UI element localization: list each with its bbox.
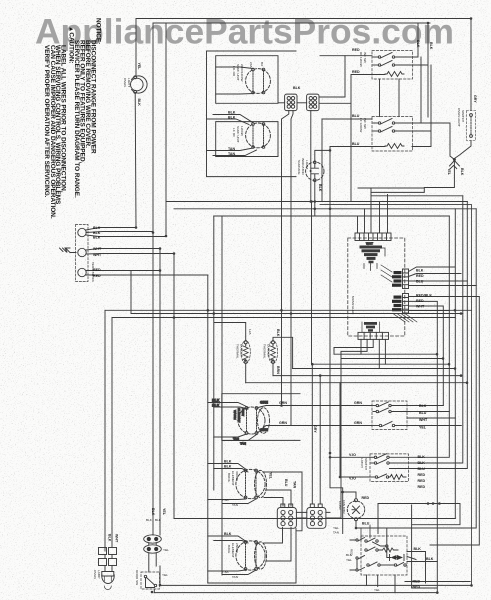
switch S5 oven light switch (467, 111, 476, 141)
svg-text:LATCH: LATCH (360, 458, 364, 468)
wire SW3 left leads GRN (266, 406, 372, 426)
svg-text:RED: RED (416, 274, 424, 278)
connector CN1 (285, 94, 297, 111)
svg-text:BLK: BLK (346, 553, 353, 557)
middle buses and thermal cutouts (105, 147, 472, 584)
svg-text:BLK: BLK (418, 461, 426, 465)
svg-text:RED: RED (352, 48, 360, 52)
svg-text:BLK: BLK (318, 184, 322, 192)
svg-text:12A: 12A (248, 329, 252, 335)
node j23 (470, 17, 473, 20)
svg-text:BLK: BLK (137, 99, 141, 107)
svg-text:TAN: TAN (293, 481, 297, 489)
svg-text:BLU: BLU (352, 114, 360, 118)
svg-text:BLK: BLK (224, 460, 232, 464)
wire SW2 left leads (322, 119, 454, 202)
node j33 (311, 363, 314, 366)
svg-text:BLK: BLK (228, 116, 236, 120)
wire right vertical x418 (412, 23, 418, 57)
connector P2 strip (381, 265, 409, 289)
svg-text:RED: RED (362, 496, 370, 500)
wire oven light feed (134, 19, 137, 229)
wire vertical bus x174 (173, 254, 175, 519)
wire CN drop x293 (291, 111, 293, 426)
svg-text:SERVICER PLEASE RETURN DIAGRAM: SERVICER PLEASE RETURN DIAGRAM TO RANGE. (73, 40, 80, 198)
node j20 (329, 452, 332, 455)
terminal block TB1 (76, 225, 89, 282)
svg-text:TERM BLOCK: TERM BLOCK (91, 262, 95, 283)
wire motor top lead RED (343, 492, 356, 499)
node j15 (460, 374, 463, 377)
node j8 (207, 309, 210, 312)
svg-text:SURFACE: SURFACE (297, 160, 301, 175)
box cooktop outer (207, 51, 297, 177)
svg-text:V.IO: V.IO (349, 477, 356, 481)
connector P4 strip bottom (358, 332, 389, 339)
wire horizontal bus y188 (358, 159, 454, 193)
wire top bus L1 (136, 18, 471, 20)
wire right vertical x431 (412, 65, 431, 147)
svg-text:GRY: GRY (473, 95, 477, 103)
svg-text:BLU: BLU (418, 467, 426, 471)
node j18 (436, 353, 439, 356)
svg-text:1200W: 1200W (240, 126, 244, 136)
svg-text:SWITCH: SWITCH (461, 110, 465, 122)
wire latch links (149, 543, 156, 572)
wire SW1-SW2 link B (398, 79, 400, 117)
svg-text:TAN: TAN (333, 531, 339, 535)
svg-text:BAKE: BAKE (227, 545, 231, 553)
svg-text:BLK: BLK (416, 40, 420, 48)
wire SW5 top feeds (386, 528, 388, 545)
wire vertical x210 (207, 275, 209, 583)
svg-text:BLK: BLK (93, 231, 101, 235)
element E2 bake (236, 541, 265, 571)
wire Vx443 (442, 307, 444, 406)
svg-text:OVEN: OVEN (93, 570, 97, 579)
wire TCO1 top lead (214, 216, 246, 490)
svg-text:WHT: WHT (93, 253, 102, 257)
svg-text:YEL: YEL (162, 508, 166, 516)
svg-text:▲CAUTION:: ▲CAUTION: (67, 26, 74, 64)
wire bus y382 (246, 382, 468, 384)
surface unit section top-center (207, 51, 352, 426)
svg-text:TAN: TAN (232, 575, 238, 579)
node j14 (454, 367, 457, 370)
svg-text:BLU: BLU (284, 479, 288, 487)
wire vertical bus x153 (152, 23, 154, 535)
wire vertical x311 long (311, 202, 313, 365)
svg-text:WHT: WHT (366, 242, 373, 246)
connector J5 pair (99, 548, 117, 566)
svg-text:FAN MTR: FAN MTR (342, 500, 346, 514)
svg-text:LIGHT: LIGHT (305, 160, 309, 169)
connector CN2 (307, 94, 319, 111)
element E1 broil (236, 469, 265, 499)
wire P1 pin up c (379, 202, 381, 234)
wire Vx467 (409, 202, 467, 469)
wire vertical bus x166 (165, 23, 167, 236)
wire E1 top leads (208, 464, 248, 473)
wire motor bottom lead BLU (356, 521, 437, 528)
wire top bus L2 (153, 22, 430, 24)
wire E2 top leads (208, 536, 248, 543)
wire T1 BLK fan (86, 228, 166, 237)
wire y503 run (378, 504, 460, 534)
svg-text:BLK: BLK (418, 455, 426, 459)
node j7 (329, 208, 332, 211)
wire SW4 left leads (330, 383, 370, 477)
wire Vx479 (430, 297, 479, 545)
wire SW5 bottom drops (367, 575, 396, 593)
svg-text:LF. RF: LF. RF (232, 128, 236, 137)
svg-text:GRN: GRN (260, 428, 268, 432)
box LF surface unit (216, 56, 278, 104)
node j2 (135, 226, 138, 229)
svg-text:INDICATOR: INDICATOR (301, 158, 305, 175)
wire E1 right leads (263, 472, 302, 531)
wire SW5 right leads (407, 552, 437, 584)
node j30 (470, 584, 473, 587)
node j39 (314, 208, 317, 211)
wire E2 right leads (264, 527, 291, 561)
svg-text:LAMP: LAMP (97, 570, 101, 578)
svg-text:INF SW: INF SW (363, 118, 367, 129)
svg-text:BRN: BRN (276, 366, 280, 374)
fuse cluster F2 (362, 322, 380, 332)
surface element RF (246, 123, 271, 149)
bottom-left oven elements section (208, 359, 341, 584)
wire Vx473 (437, 209, 476, 528)
node j37 (329, 149, 332, 152)
wire box to CN1 (278, 102, 285, 104)
wire bus y354 (334, 353, 437, 355)
svg-text:BROIL: BROIL (227, 473, 231, 483)
fuse cluster F1 (360, 242, 386, 271)
svg-text:BLK: BLK (212, 399, 220, 403)
svg-text:BLK: BLK (212, 404, 220, 408)
node j16 (466, 381, 469, 384)
svg-text:RED: RED (352, 70, 360, 74)
svg-text:YEL: YEL (447, 168, 451, 176)
svg-text:THERMAL: THERMAL (236, 344, 240, 359)
node j25 (453, 158, 456, 161)
wire P4 drop c (334, 339, 373, 354)
svg-text:TAN: TAN (233, 437, 239, 441)
wire E0 right leads (258, 406, 266, 433)
wire and component labels (91, 40, 477, 592)
svg-text:THERMAL: THERMAL (263, 344, 267, 359)
svg-text:ELEMENT: ELEMENT (237, 408, 241, 423)
node j19 (280, 404, 283, 407)
svg-text:GRN: GRN (260, 401, 268, 405)
node j21 (159, 584, 162, 587)
svg-text:3400W: 3400W (235, 471, 239, 481)
bottom-left lamp and door switch (99, 535, 162, 593)
svg-text:BLK: BLK (414, 547, 422, 551)
svg-text:YEL: YEL (163, 548, 169, 552)
svg-text:BLK: BLK (146, 518, 153, 522)
right-side vertical harness (320, 196, 479, 593)
svg-text:V.IO: V.IO (349, 453, 356, 457)
svg-text:YEL: YEL (346, 558, 352, 562)
wire CNB2 pins up (312, 364, 320, 504)
wire Vx461 (409, 196, 463, 463)
wire horizontal bus y195 (371, 195, 463, 197)
node j41 (341, 491, 344, 494)
node j5b (159, 269, 162, 272)
svg-text:YEL: YEL (374, 588, 380, 592)
node j1 (152, 231, 155, 234)
svg-text:CUTOUT: CUTOUT (267, 344, 271, 357)
svg-text:SWITCH: SWITCH (364, 458, 368, 470)
svg-text:RED: RED (413, 580, 421, 584)
svg-text:DOOR SW: DOOR SW (135, 570, 139, 585)
wire P1 pin up e (370, 188, 372, 233)
svg-text:ELEMENT: ELEMENT (231, 471, 235, 486)
svg-text:SURF UNIT: SURF UNIT (236, 64, 240, 81)
wire CNB links (296, 359, 341, 519)
wire horizontal bus y209 (174, 208, 476, 210)
wire RF left leads (207, 115, 254, 125)
svg-text:RED/BLK: RED/BLK (416, 294, 432, 298)
node j26 (427, 502, 430, 505)
svg-text:GRN: GRN (279, 421, 287, 425)
node j24 (427, 22, 430, 25)
svg-text:BLU: BLU (352, 142, 360, 146)
wire P1 pin up d (387, 195, 389, 234)
svg-text:TAN: TAN (228, 152, 236, 156)
wire vertical bus x160 (159, 249, 161, 535)
svg-text:LF 1200W: LF 1200W (359, 118, 363, 132)
svg-text:WHT: WHT (93, 247, 102, 251)
svg-text:VERIFY PROPER OPERATION AFTER: VERIFY PROPER OPERATION AFTER SERVICING. (43, 45, 50, 198)
latch L1 ovals (144, 535, 162, 543)
switch SW5 outer contacts (350, 525, 370, 571)
svg-text:BLK: BLK (293, 86, 301, 90)
svg-text:BLK: BLK (429, 42, 433, 50)
node j22 (151, 591, 154, 594)
svg-text:YEL: YEL (419, 426, 427, 430)
svg-text:WARM: WARM (233, 410, 237, 420)
wire T2 WHT pair (86, 249, 174, 255)
wire E1 bottom leads (208, 499, 256, 504)
svg-text:WHT: WHT (115, 534, 119, 543)
wire bottom bus y592 (154, 592, 437, 594)
node j27 (432, 502, 435, 505)
wire SW3 right leads (407, 406, 461, 426)
wire vertical x222 (221, 216, 223, 575)
wire P4 drop a (360, 339, 362, 354)
svg-text:GRN: GRN (354, 401, 362, 405)
svg-text:WHT: WHT (419, 418, 428, 422)
svg-text:ELEMENT: ELEMENT (231, 543, 235, 558)
svg-text:BLK: BLK (460, 168, 464, 176)
lamp B2 oven lamp (102, 572, 114, 590)
wire vertical x105 (104, 310, 106, 551)
wire P4 drop d (379, 339, 385, 368)
node j35 (280, 309, 283, 312)
wire oven light switch feed (450, 19, 472, 169)
wire E2 bottom bus (208, 528, 296, 583)
switch SW1 (RF infinite) (372, 51, 413, 80)
node j3 (165, 235, 168, 238)
wire TCO2 top lead (273, 337, 293, 368)
svg-text:YEL: YEL (137, 63, 141, 71)
node j4 (159, 247, 162, 250)
wire CN2 drop x310.8 (310, 111, 312, 202)
wire LF lead stub (216, 67, 253, 94)
wire Vx449 (409, 216, 449, 457)
svg-text:RED: RED (418, 485, 426, 489)
svg-text:TAN: TAN (228, 147, 236, 151)
wire P3 leads right (409, 297, 480, 311)
wire lamp feeds (105, 555, 112, 572)
node j9 (213, 312, 216, 315)
wire sw5 right drop (405, 505, 470, 588)
wire P3 bundle diag (393, 314, 417, 323)
svg-text:YEL: YEL (162, 573, 168, 577)
wire bus y364 (312, 363, 450, 365)
svg-text:2000/1200W: 2000/1200W (240, 64, 244, 82)
svg-text:M1/M2 ELEC: M1/M2 ELEC (351, 296, 355, 315)
svg-text:BLK: BLK (224, 532, 232, 536)
svg-text:LR. RR: LR. RR (232, 66, 236, 77)
wire CN2 right to switch area (319, 102, 351, 104)
svg-text:BLK: BLK (419, 404, 427, 408)
svg-text:YEL: YEL (333, 526, 339, 530)
svg-text:GRN: GRN (354, 421, 362, 425)
svg-text:BLK: BLK (276, 329, 280, 337)
wire TCO2 bottom lead (272, 363, 274, 375)
wire SW1-SW2 link A (379, 79, 381, 117)
svg-text:BLK: BLK (416, 269, 424, 273)
svg-text:2500W: 2500W (235, 543, 239, 553)
switch SW4 (V.IO latch) (370, 454, 409, 482)
wire bus y368 (293, 368, 456, 370)
svg-text:T-8A: T-8A (222, 498, 229, 502)
wire RF lower leads (207, 148, 257, 156)
thermal cutout TCO2 (268, 341, 277, 364)
wire SW1 left leads (345, 56, 385, 202)
svg-text:GRN: GRN (279, 401, 287, 405)
wire right vertical x428 (412, 23, 428, 117)
node j34 (319, 374, 322, 377)
wire bottom bus y585 (160, 584, 472, 586)
svg-text:INF SW: INF SW (363, 52, 367, 63)
wire E2 bottom leads (208, 570, 256, 575)
svg-text:BLK: BLK (93, 236, 101, 240)
switch SW5 (selector) (361, 536, 407, 575)
wire P4 drop b (341, 339, 367, 358)
wire CN1 to CN2 (297, 102, 307, 104)
wire horizontal bus y216 (214, 215, 449, 217)
svg-text:750W: 750W (241, 408, 245, 416)
svg-text:OVEN: OVEN (123, 78, 127, 87)
wire RED drop x134 (130, 271, 132, 314)
connector P1 strip (355, 233, 391, 241)
node j29 (436, 591, 439, 594)
wire Vx470b (320, 205, 472, 586)
wire indicator drop (314, 182, 316, 217)
svg-text:WHT: WHT (416, 305, 425, 309)
svg-text:GRY: GRY (313, 425, 317, 433)
svg-text:LIGHT: LIGHT (127, 78, 131, 87)
wire bus y317 (112, 317, 455, 319)
svg-text:24A: 24A (249, 62, 253, 68)
wire T3 RED pair (86, 271, 208, 276)
element E0 warming (238, 407, 265, 435)
bottom-right switches and motor (154, 383, 471, 593)
lamp B1 oven light (131, 76, 148, 94)
wire right vertical x421 (412, 57, 421, 123)
wire E0 left leads (208, 403, 248, 410)
wire bus y375 (273, 375, 461, 377)
node j5 (173, 252, 176, 255)
wire bus y313 (131, 313, 463, 315)
notice text block (rotated) (43, 18, 102, 219)
wire Vx455 (454, 209, 456, 519)
svg-text:BLK: BLK (426, 557, 434, 561)
svg-text:RED: RED (413, 585, 421, 589)
svg-text:TAN: TAN (240, 442, 246, 446)
element E0b outer loop (258, 408, 270, 434)
svg-text:CONV: CONV (338, 501, 342, 511)
node j38 (314, 200, 317, 203)
latch L2 ovals (144, 545, 162, 553)
thermal cutout TCO1 (241, 341, 250, 364)
node j28 (438, 502, 441, 505)
connector P3 strip (392, 294, 409, 314)
switch SW6 door (141, 572, 160, 589)
surface element LF (246, 68, 271, 94)
wire bus y310 (105, 309, 472, 311)
control U1 dashed enclosure (348, 238, 405, 336)
wire P1 pin up a (357, 216, 359, 233)
svg-text:BLK: BLK (155, 518, 162, 522)
ground symbol (60, 248, 77, 253)
svg-text:BLK: BLK (151, 508, 155, 516)
svg-text:RED: RED (418, 473, 426, 477)
wire CN drop x288.8 (282, 111, 289, 406)
element E2b outer loop (255, 542, 267, 569)
electronic control section (334, 188, 479, 369)
svg-text:T-8A: T-8A (222, 570, 229, 574)
wire vertical x330 long (330, 147, 343, 534)
node j17 (442, 357, 445, 360)
switch SW2 (LF infinite) (372, 117, 413, 152)
svg-text:TAN: TAN (232, 503, 238, 507)
node j11 (454, 309, 457, 312)
svg-text:BLK: BLK (228, 111, 236, 115)
wire bus y358 (341, 358, 443, 360)
node j12 (460, 312, 463, 315)
svg-text:BLU: BLU (362, 522, 370, 526)
svg-text:SURF UNIT: SURF UNIT (236, 126, 240, 143)
svg-text:BLU: BLU (416, 280, 424, 284)
node j13 (448, 363, 451, 366)
top-right infinite switch section (322, 19, 476, 202)
box E0 outline (222, 394, 300, 441)
svg-text:RED: RED (418, 479, 426, 483)
motor M1 conv fan (347, 499, 364, 521)
lamp surface indicator (306, 161, 324, 182)
svg-text:OVEN LIGHT: OVEN LIGHT (457, 108, 461, 127)
node j10 (173, 316, 176, 319)
wire horizontal bus y201 (166, 201, 467, 203)
node j31 (329, 456, 332, 459)
wire E0 bottom leads (214, 434, 257, 441)
